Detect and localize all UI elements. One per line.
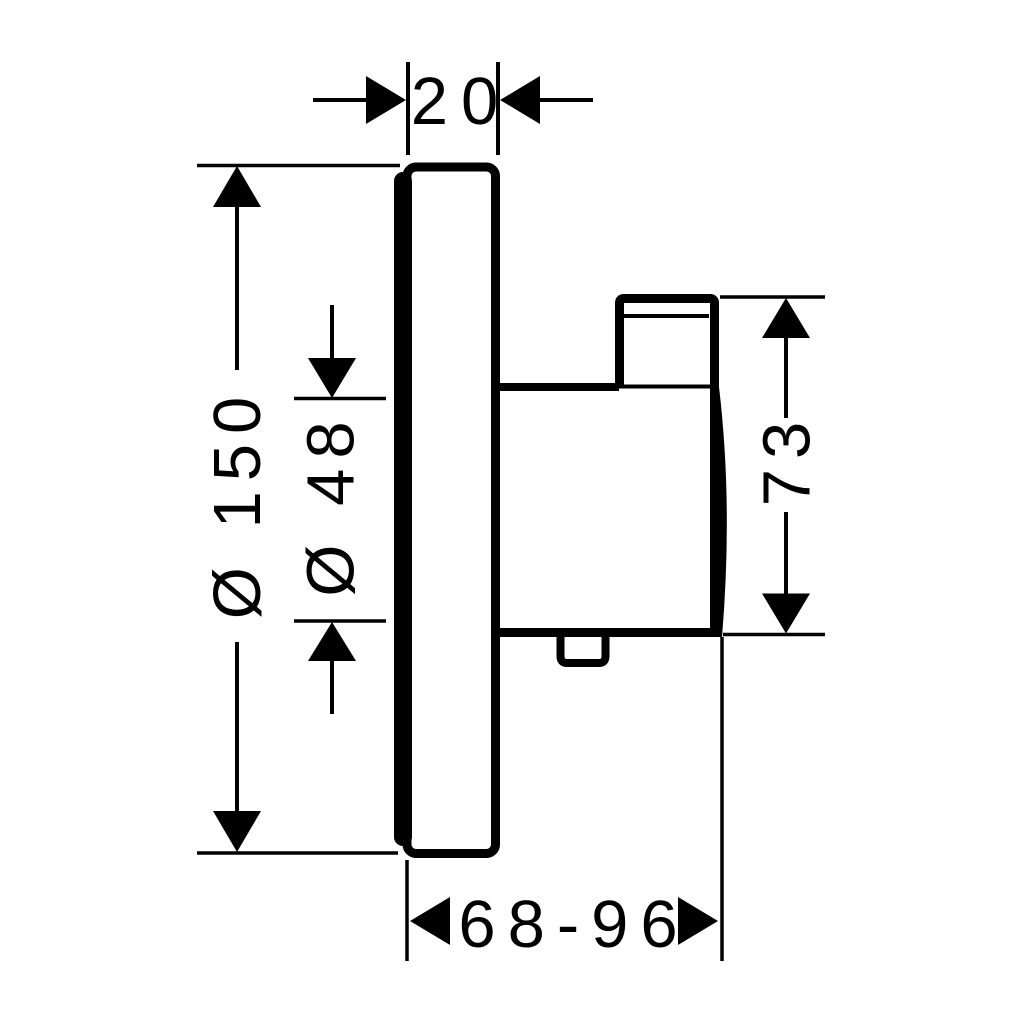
svg-text:68-96: 68-96 xyxy=(458,887,689,962)
svg-text:Ø 48: Ø 48 xyxy=(294,411,369,596)
svg-text:Ø 150: Ø 150 xyxy=(200,387,275,620)
svg-text:20: 20 xyxy=(411,64,512,139)
svg-text:73: 73 xyxy=(750,412,825,507)
